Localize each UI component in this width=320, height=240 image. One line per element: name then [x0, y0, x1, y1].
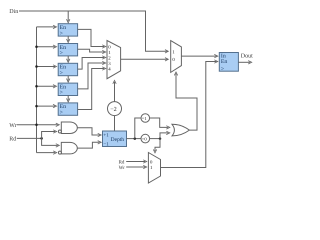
svg-text:Wr: Wr	[9, 123, 16, 129]
wire C2 to OR gate G3 input 2	[160, 131, 170, 138]
junction comparator C2 output branch	[159, 137, 162, 140]
wire Din to mux M2 input 1	[19, 11, 168, 53]
wire G2 output to depth counter -1 input	[77, 141, 101, 149]
junction En bus / R5	[35, 105, 38, 108]
wire mux M2 output to register U6 data input	[181, 54, 217, 57]
wire depth tap to subtractor A1	[114, 116, 116, 131]
wire mux M1 output to mux M2 input 0	[121, 58, 169, 61]
register R2	[58, 44, 77, 57]
svg-text:=0: =0	[142, 137, 148, 142]
comparator C2 (=0)	[141, 134, 150, 143]
wire R2 output to mux M1 input 1	[78, 49, 106, 53]
svg-text:−1: −1	[103, 142, 109, 148]
or gate G3 (empty or almost-empty)	[172, 124, 189, 136]
AND gate G2 (Rd and not Wr)	[58, 142, 77, 154]
register R3	[58, 63, 77, 76]
register U6 (output register)	[219, 53, 238, 73]
net label Rd	[9, 135, 16, 142]
wire Wr to AND gate G2 inverted input	[37, 151, 57, 154]
net label Wr (mux M3 input 1)	[119, 165, 126, 171]
wire R3 output to mux M1 input 2	[78, 56, 106, 69]
junction depth output branch	[134, 137, 137, 140]
mux M3 (output-enable multiplexer)	[148, 153, 160, 184]
svg-text:Wr: Wr	[119, 165, 126, 171]
AND gate G1 (Wr and not Rd)	[58, 122, 77, 134]
wire mux M3 output to register U6 enable	[161, 60, 218, 168]
register R1	[58, 24, 77, 37]
mux M1 (5:1 read multiplexer)	[107, 41, 121, 79]
wire Wr to mux M3 input 1	[126, 165, 147, 168]
register R4	[58, 83, 77, 96]
wire R3 to R4	[67, 76, 70, 83]
net label Wr	[9, 123, 16, 129]
junction En bus / R3	[35, 65, 38, 68]
svg-text:Din: Din	[9, 9, 18, 15]
wire C2 to mux M3 select	[153, 139, 160, 153]
wire R4 output to mux M1 input 3	[78, 61, 106, 89]
wire Wr to AND gate G1 input 1	[17, 123, 60, 126]
junction Rd branch	[40, 137, 43, 140]
svg-text:Dout: Dout	[241, 54, 253, 60]
junction Wr / En bus	[35, 124, 38, 127]
wire subtractor A1 to mux M1 select	[113, 80, 116, 101]
net label Din	[9, 9, 18, 15]
net label Dout	[241, 54, 253, 60]
wire Din branch into register R1 data input	[67, 11, 70, 23]
register R5	[58, 103, 77, 116]
svg-text:>: >	[60, 110, 63, 116]
junction En bus / R2	[35, 45, 38, 48]
wire depth counter output	[127, 138, 142, 140]
wire R2 to R3	[67, 56, 70, 63]
wire En branch to R3	[37, 65, 57, 68]
svg-text:+1: +1	[103, 132, 109, 138]
wire comparator C1 to OR gate G3 input 1	[150, 118, 170, 129]
wire Rd to mux M3 input 0	[126, 160, 147, 163]
svg-text:>: >	[221, 66, 224, 72]
wire En branch to R5	[37, 104, 57, 107]
svg-text:>: >	[60, 90, 63, 96]
svg-text:Rd: Rd	[9, 135, 16, 142]
wire En branch to R1	[37, 25, 57, 28]
svg-text:=1: =1	[142, 116, 148, 121]
wire Dout output arrow	[238, 61, 251, 64]
svg-text:−2: −2	[110, 106, 117, 113]
svg-text:Depth: Depth	[111, 137, 125, 143]
wire Rd horizontal	[17, 137, 42, 139]
svg-text:>: >	[60, 51, 63, 57]
svg-text:>: >	[60, 70, 63, 76]
subtractor A1 (-2)	[108, 102, 122, 116]
wire R1 output to mux M1 input 0	[78, 29, 106, 48]
wire OR gate G3 output to mux M2 select	[174, 72, 197, 130]
wire depth output to comparator C1	[135, 118, 141, 139]
wire En branch to R4	[37, 85, 57, 88]
wire Rd to AND gate G2 input 1	[42, 138, 60, 147]
wire Rd to AND gate G1 inverted input	[42, 130, 57, 139]
net label Rd (mux M3 input 0)	[119, 159, 125, 165]
wire R5 output to mux M1 input 4	[78, 67, 106, 110]
svg-text:>: >	[60, 31, 63, 37]
wire En branch to R2	[37, 45, 57, 48]
svg-text:Rd: Rd	[119, 159, 125, 165]
depth counter U7	[103, 131, 127, 148]
wire G1 output to depth counter +1 input	[77, 128, 101, 137]
wire R1 to R2	[67, 36, 70, 43]
comparator C1 (=1)	[141, 114, 150, 123]
mux M2 (2:1 bypass multiplexer)	[171, 41, 182, 73]
wire write-enable bus (Wr) vertical	[36, 27, 38, 153]
wire comparator C2 output	[150, 138, 160, 140]
junction En bus / R4	[35, 85, 38, 88]
svg-text:En: En	[221, 59, 228, 65]
wire R4 to R5	[67, 96, 70, 103]
